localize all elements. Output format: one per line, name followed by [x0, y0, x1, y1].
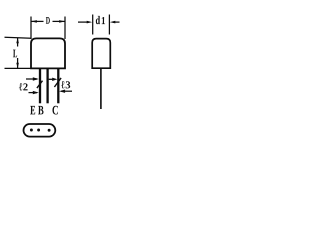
label d1 [96, 16, 105, 24]
dimension d1 right outside line [113, 21, 120, 23]
label l3 [61, 81, 70, 88]
dimension l2 lower arrowhead [33, 91, 39, 94]
label l2 [19, 83, 28, 90]
dimension d1 left extension line [92, 15, 94, 35]
dimension d1 right outside arrowhead [110, 21, 116, 24]
arrowhead at lead C in B-C gap [52, 78, 57, 81]
dimension D left arrowhead [31, 20, 37, 23]
dimension D left extension line [30, 17, 32, 40]
dimension L line upper segment [17, 38, 19, 47]
package body front view [31, 38, 65, 68]
bottom view lead dot C [48, 129, 51, 132]
label B [38, 106, 44, 115]
label L [13, 50, 17, 58]
dimension l3 lower arrowhead [59, 90, 65, 93]
dimension l3 lower arrow line at lead C [61, 90, 72, 92]
dimension d1 left outside arrowhead [87, 21, 93, 24]
dimension D right extension line [64, 17, 66, 40]
label C [52, 106, 57, 115]
lead (side view) [100, 68, 102, 109]
dimension L down arrowhead [16, 63, 19, 68]
dimension L bottom extension tick [5, 67, 32, 69]
package body side view [92, 39, 110, 69]
lead C (front view) [57, 68, 59, 103]
label D [46, 17, 50, 24]
bottom view lead dot B [37, 129, 40, 132]
dimension L up arrowhead [16, 38, 19, 44]
bottom view outline (stadium) [24, 124, 56, 137]
lead E (front view) [39, 68, 41, 103]
dimension l2 lower arrow line at lead E [29, 92, 38, 94]
dimension L top extension tick [5, 36, 32, 39]
dimension d1 right extension line [108, 15, 110, 35]
dimension line across B-C gap [49, 78, 55, 80]
dimension D right arrowhead [59, 20, 64, 23]
oblique stroke across lead C [54, 78, 61, 87]
lead B (front view) [46, 68, 48, 103]
label E [30, 106, 35, 115]
dimension D line left segment [32, 20, 44, 22]
dimension l2 upper arrow line at lead E [26, 78, 37, 80]
bottom view lead dot E [30, 129, 33, 132]
oblique stroke across lead E [37, 81, 43, 88]
dimension D line right segment [53, 20, 65, 22]
dimension L line lower segment [17, 58, 19, 68]
dimension d1 left outside line [78, 21, 88, 23]
dimension l2 upper arrowhead [33, 77, 39, 80]
